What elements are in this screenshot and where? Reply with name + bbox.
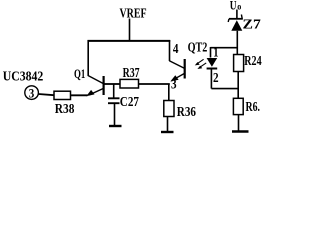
svg-text:R6.: R6. [246, 98, 261, 114]
resistor R37 [120, 79, 139, 88]
capacitor C27 [108, 84, 120, 126]
light arrows [195, 59, 206, 69]
wire R37 to node 3 [139, 83, 170, 85]
ground under C27 [109, 125, 122, 127]
resistor R24 [234, 55, 244, 72]
svg-text:VREF: VREF [120, 5, 147, 21]
wire R36 to ground [167, 117, 169, 132]
collector drop from rail [169, 40, 171, 61]
svg-text:R37: R37 [123, 64, 140, 80]
wire VREF stub [129, 19, 131, 42]
wire R6 to ground [238, 115, 240, 131]
node 3 / wire down to R36 [168, 84, 170, 101]
svg-text:C27: C27 [120, 94, 140, 109]
wire left drop to Q1 collector [87, 40, 89, 76]
resistor R36 [164, 101, 174, 117]
resistor R38 [54, 91, 71, 99]
node pin 3 terminal circle [25, 86, 39, 100]
emitter with arrow [89, 89, 103, 96]
wire LED cathode to node J2 [211, 88, 238, 90]
svg-text:3: 3 [29, 85, 35, 100]
wire branch to LED anode [211, 47, 238, 49]
collector diagonal [169, 61, 184, 69]
optocoupler LED QT2 [207, 58, 218, 89]
base bar [102, 76, 104, 95]
wire Uo to zener [236, 10, 238, 19]
transistor Q1 [74, 67, 104, 96]
svg-text:2: 2 [213, 70, 219, 85]
svg-text:R38: R38 [55, 101, 75, 116]
wire Q1 base to R37 [105, 83, 121, 85]
resistor R6 [233, 98, 243, 114]
base bar [184, 59, 186, 79]
wire R24 to R8 [237, 72, 239, 99]
wire R38 to Q1 emitter [71, 94, 88, 96]
ground under R36 [161, 131, 174, 133]
svg-text:R36: R36 [177, 104, 196, 119]
emitter with arrow [173, 74, 184, 80]
svg-text:UC3842: UC3842 [3, 68, 44, 84]
ground under R6 [232, 130, 249, 133]
svg-text:4: 4 [173, 41, 179, 56]
svg-text:R24: R24 [244, 52, 261, 68]
collector diagonal [88, 76, 103, 84]
svg-text:QT2: QT2 [188, 39, 208, 55]
svg-text:U: U [230, 0, 237, 13]
svg-text:Q1: Q1 [74, 67, 85, 81]
wire zener to R24 [236, 31, 238, 55]
svg-text:o: o [237, 1, 241, 12]
phototransistor QT2 (transistor side) [169, 40, 184, 82]
svg-text:Z7: Z7 [243, 17, 262, 32]
zener Z7 [228, 15, 243, 31]
wire circle to R38 [38, 94, 54, 95]
wire top rail [88, 40, 171, 42]
svg-text:1: 1 [213, 44, 218, 60]
